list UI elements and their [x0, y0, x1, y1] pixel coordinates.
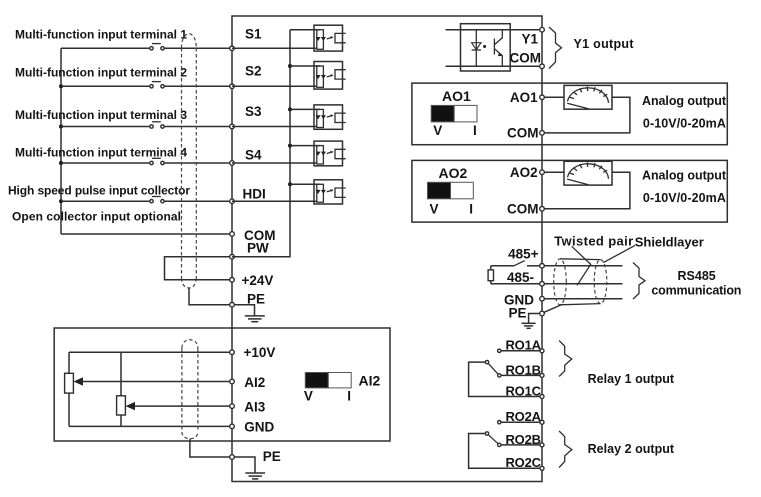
- svg-text:AI2: AI2: [244, 375, 265, 390]
- svg-text:RS485: RS485: [678, 269, 716, 283]
- svg-text:485-: 485-: [507, 270, 534, 285]
- meter M2 analog output: [564, 161, 612, 185]
- svg-text:V: V: [433, 123, 442, 138]
- svg-text:RO1B: RO1B: [506, 362, 542, 377]
- svg-text:AO2: AO2: [510, 165, 538, 180]
- main inverter box outline: [232, 16, 542, 482]
- svg-text:0-10V/0-20mA: 0-10V/0-20mA: [643, 116, 726, 130]
- wire cable shield to PE: [189, 289, 232, 305]
- resistor R1 RS485 termination: [488, 266, 493, 284]
- svg-text:Analog output: Analog output: [642, 94, 727, 108]
- terminal RO2C: [540, 466, 544, 470]
- terminal +10V: [230, 350, 235, 355]
- terminal S1: [230, 46, 235, 51]
- terminal GND (RS485): [540, 296, 545, 301]
- svg-text:PW: PW: [247, 241, 269, 256]
- svg-text:Multi-function input terminal: Multi-function input terminal 3: [15, 108, 187, 122]
- optocoupler U4 (S4 input): [232, 141, 346, 166]
- wire optocoupler common bus to PW: [232, 30, 290, 257]
- terminal HDI: [230, 199, 235, 204]
- svg-text:I: I: [347, 389, 351, 404]
- AO1 section box: [412, 83, 727, 145]
- wire left input bus: [60, 48, 62, 234]
- twisted pair pointer: [572, 246, 591, 285]
- svg-text:COM: COM: [510, 51, 542, 66]
- ground symbol at bottom PE: [234, 457, 265, 479]
- svg-text:RO1A: RO1A: [506, 338, 542, 353]
- junction dot bus S2: [59, 84, 63, 88]
- terminal 485+: [540, 264, 545, 269]
- terminal COM (AO2): [540, 207, 545, 212]
- svg-text:AI3: AI3: [244, 399, 265, 414]
- switch SW2 AO2 V/I selector: [428, 165, 474, 217]
- optocoupler U6 (Y1 output): [446, 24, 541, 71]
- svg-text:Multi-function input terminal: Multi-function input terminal 4: [15, 146, 187, 160]
- svg-text:GND: GND: [244, 419, 274, 434]
- svg-text:V: V: [430, 202, 439, 217]
- wire 485- through shield: [544, 283, 622, 285]
- wire 485+ through shield: [544, 265, 622, 267]
- svg-text:I: I: [469, 202, 473, 217]
- terminal COM: [230, 232, 235, 237]
- svg-text:V: V: [304, 389, 313, 404]
- terminal 485-: [540, 282, 545, 287]
- meter M1 analog output: [564, 85, 612, 109]
- terminal PE bottom: [230, 455, 235, 460]
- optocoupler U3 (S3 input): [232, 105, 346, 129]
- AO2 section box: [412, 160, 727, 222]
- svg-text:AI2: AI2: [359, 372, 381, 388]
- svg-text:RO2A: RO2A: [506, 409, 542, 424]
- junction dot bus HDI: [59, 199, 63, 203]
- switch SW3 AI2 V/I selector: [304, 372, 381, 403]
- svg-text:S3: S3: [245, 104, 262, 119]
- svg-text:+10V: +10V: [244, 345, 276, 360]
- terminal RO1A: [540, 349, 544, 353]
- svg-text:RO1C: RO1C: [506, 383, 542, 398]
- wire HDI row with switch K5: [61, 197, 232, 203]
- wire S3 row with switch K3: [61, 122, 232, 128]
- junction dot bus S4: [59, 161, 63, 165]
- brace relay 2: [559, 431, 572, 468]
- terminal +24V: [230, 278, 235, 283]
- relay 2 contacts: [469, 421, 542, 469]
- junction dot bus S3: [59, 125, 63, 129]
- terminal AI3: [230, 404, 235, 409]
- wire S2 row with switch K2: [61, 82, 232, 88]
- wire +10V row: [69, 351, 232, 353]
- brace RS485: [633, 263, 645, 300]
- terminal COM (Y1): [540, 64, 545, 69]
- wire GND row: [69, 425, 232, 427]
- svg-text:COM: COM: [507, 201, 539, 216]
- svg-text:RO2C: RO2C: [506, 455, 542, 470]
- junction dot opto bus S4: [288, 144, 292, 148]
- wire S4 row with switch K4: [61, 158, 232, 164]
- wire PE to shield diagonal: [544, 305, 561, 313]
- terminal COM (AO1): [540, 131, 545, 136]
- terminal GND: [230, 424, 235, 429]
- potentiometer RP1: [65, 352, 74, 426]
- svg-text:High speed pulse input collect: High speed pulse input collector: [8, 184, 190, 198]
- wire GND through shield: [544, 298, 622, 300]
- shielded cable of analog inputs (dashed): [182, 340, 198, 439]
- wire S1 row with switch K1: [61, 44, 232, 50]
- brace relay 1: [559, 341, 572, 377]
- svg-text:S2: S2: [245, 64, 262, 79]
- terminal Y1: [540, 27, 545, 32]
- svg-text:AO2: AO2: [439, 165, 468, 181]
- terminal PE: [230, 303, 235, 308]
- svg-text:Analog output: Analog output: [642, 169, 727, 183]
- svg-text:Y1 output: Y1 output: [574, 37, 635, 51]
- svg-text:S4: S4: [245, 147, 262, 162]
- ground symbol at PE: [234, 305, 265, 322]
- svg-text:Twisted pair: Twisted pair: [554, 233, 633, 248]
- svg-text:AO1: AO1: [510, 90, 538, 105]
- wire PE to small ground: [529, 314, 540, 324]
- svg-text:S1: S1: [245, 27, 262, 42]
- svg-text:Relay 1 output: Relay 1 output: [588, 372, 675, 386]
- junction dot opto bus S2: [288, 64, 292, 68]
- terminal RO1C: [540, 395, 544, 399]
- switch SW1 AO1 V/I selector: [431, 88, 477, 138]
- svg-text:Multi-function input terminal: Multi-function input terminal 1: [15, 28, 187, 42]
- svg-text:HDI: HDI: [243, 187, 266, 202]
- relay 1 contacts: [469, 349, 542, 396]
- shielded cable of digital inputs (dashed): [182, 34, 197, 288]
- ground symbol RS485 PE: [522, 323, 536, 328]
- svg-text:RO2B: RO2B: [506, 432, 542, 447]
- optocoupler U1 (S1 input): [232, 25, 346, 51]
- wire analog shield to PE: [190, 439, 232, 457]
- svg-text:Relay 2 output: Relay 2 output: [588, 442, 675, 456]
- wire 485- row: [491, 283, 540, 285]
- optocoupler U5 (HDI input): [232, 180, 346, 204]
- svg-text:+24V: +24V: [242, 273, 274, 288]
- analog input section box: [54, 328, 390, 441]
- svg-text:AO1: AO1: [442, 88, 471, 104]
- terminal RO1B: [540, 373, 544, 377]
- svg-text:485+: 485+: [508, 246, 539, 261]
- wire jumper loop PW to +24V: [165, 257, 233, 280]
- wire COM row: [61, 233, 232, 235]
- svg-text:Shieldlayer: Shieldlayer: [635, 235, 704, 250]
- wiper arrow AI2: [74, 377, 232, 385]
- svg-text:Open collector input optional: Open collector input optional: [12, 210, 181, 224]
- junction dot opto bus S3: [288, 107, 292, 111]
- svg-text:0-10V/0-20mA: 0-10V/0-20mA: [643, 191, 726, 205]
- terminal AI2: [230, 379, 235, 384]
- shield layer cylinder: [554, 259, 607, 305]
- svg-text:COM: COM: [507, 126, 539, 141]
- terminal S2: [230, 84, 235, 89]
- terminal AO1: [540, 95, 545, 100]
- terminal RO2B: [540, 443, 544, 447]
- svg-text:I: I: [473, 123, 477, 138]
- wire AO2 to meter loop: [544, 171, 564, 173]
- wire AO1 to meter loop: [544, 96, 564, 98]
- terminal PE (RS485): [540, 311, 545, 316]
- potentiometer RP2: [117, 352, 126, 426]
- svg-text:Multi-function input terminal: Multi-function input terminal 2: [15, 66, 187, 80]
- optocoupler U2 (S2 input): [232, 62, 346, 90]
- wiper arrow AI3: [126, 402, 232, 410]
- terminal S3: [230, 124, 235, 129]
- svg-text:communication: communication: [651, 283, 741, 297]
- svg-text:Y1: Y1: [521, 32, 538, 47]
- switch RS485 terminator on 485+: [491, 261, 540, 266]
- svg-text:PE: PE: [508, 305, 526, 320]
- junction dot opto bus HDI: [288, 182, 292, 186]
- svg-text:PE: PE: [263, 449, 281, 464]
- terminal RO2A: [540, 420, 544, 424]
- brace Y1 output: [549, 27, 562, 69]
- terminal AO2: [540, 170, 545, 175]
- terminal S4: [230, 161, 235, 166]
- terminal PW: [230, 254, 235, 259]
- shieldlayer pointer: [603, 245, 635, 262]
